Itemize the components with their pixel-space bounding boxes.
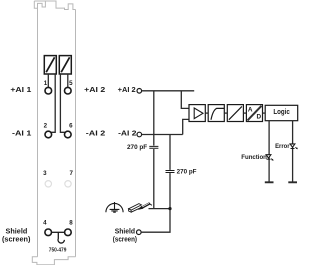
LED Error symbol (290, 144, 297, 149)
module right edge (75, 10, 77, 257)
filter curve (211, 108, 224, 119)
ground left (265, 181, 274, 183)
wire -AI 2 horizontal (142, 134, 183, 136)
wire +AI 2 branch down to C1 (153, 91, 155, 146)
svg-text:1: 1 (44, 80, 48, 87)
svg-text:+AI 2: +AI 2 (118, 85, 136, 94)
wire U1-U2 (205, 112, 208, 114)
wire U3-U4 (243, 112, 246, 114)
amplifier triangle (194, 108, 203, 119)
svg-text:7: 7 (69, 170, 73, 177)
wire shield bus horizontal (149, 208, 171, 210)
wire shield terminal to bus (141, 209, 170, 233)
shield clamp conductor arrow (141, 203, 150, 208)
LED square channel 1 (44, 56, 71, 74)
functional earth symbol (106, 202, 123, 212)
wire -AI 2 branch down to C2 (169, 135, 171, 170)
terminal circle -AI 2 (137, 132, 142, 137)
shield clamp plate bottom edge (131, 206, 144, 212)
shield clamp symbol plate (129, 204, 142, 213)
pin 7 clamp circle (unused) (65, 181, 71, 187)
amplifier block U1 (189, 105, 205, 122)
LED Function symbol (266, 155, 273, 160)
wire U4-U5 (263, 112, 266, 114)
svg-text:Error: Error (275, 143, 290, 150)
wire Logic to ground right (292, 121, 294, 182)
ground right (288, 181, 297, 183)
A/D converter block U4 (246, 105, 262, 122)
wire Logic to ground left (268, 121, 270, 182)
svg-text:6: 6 (69, 122, 73, 129)
svg-text:(screen): (screen) (113, 235, 138, 244)
wire bracket + input to amplifier (181, 91, 189, 109)
svg-text:(screen): (screen) (2, 235, 31, 244)
capacitor C2 270 pF plates (166, 171, 175, 173)
wire LED1 to pin 1 (47, 74, 49, 87)
wire bracket - input to amplifier (183, 119, 189, 134)
svg-text:-AI 2: -AI 2 (86, 129, 105, 138)
linearization block U3 (227, 105, 243, 122)
filter block U2 (208, 105, 224, 122)
jumper pin 4 to pin 8 (52, 231, 65, 233)
pin 8 clamp circle (65, 229, 72, 236)
svg-text:Logic: Logic (273, 107, 289, 116)
wire LED1 to pin 2 (51, 74, 56, 132)
terminal circle +AI 2 (137, 89, 142, 94)
LED square channel 2 (59, 56, 71, 74)
wire C2 down to shield bus (169, 173, 171, 209)
pin 5 clamp circle (65, 87, 72, 94)
svg-text:Function: Function (241, 154, 267, 161)
module 750-479 body outline top cap (34, 1, 75, 10)
LED diagonal channel 1 (46, 57, 54, 72)
module bottom foot (32, 257, 75, 265)
pin 3 clamp circle (unused) (45, 181, 51, 187)
wire LED2 to pin 6 (60, 74, 66, 132)
LED diagonal channel 2 (61, 57, 69, 72)
svg-text:-AI 2: -AI 2 (118, 129, 136, 138)
pin 6 clamp circle (65, 131, 72, 138)
svg-text:750-479: 750-479 (49, 248, 67, 254)
A/D diagonal (248, 106, 262, 121)
wire U2-U3 (224, 112, 227, 114)
svg-text:D: D (256, 114, 261, 121)
wire LED2 to pin 5 (67, 74, 69, 87)
terminal circle Shield (137, 230, 142, 235)
svg-text:2: 2 (44, 122, 48, 129)
svg-text:A: A (248, 106, 253, 113)
pin 2 clamp circle (45, 131, 52, 138)
Logic block U5 (265, 105, 298, 120)
linearization diagonal (229, 106, 242, 119)
svg-text:5: 5 (69, 80, 73, 87)
pin 1 clamp circle (45, 87, 52, 94)
svg-text:+AI 2: +AI 2 (84, 85, 105, 94)
svg-text:8: 8 (69, 220, 73, 227)
wire +AI 2 horizontal (142, 90, 195, 92)
svg-text:270 pF: 270 pF (127, 144, 147, 151)
svg-text:-AI 1: -AI 1 (12, 129, 31, 138)
svg-text:4: 4 (43, 220, 47, 227)
svg-text:+AI 1: +AI 1 (10, 85, 31, 94)
module left edge (37, 8, 39, 257)
svg-text:3: 3 (43, 170, 47, 177)
junction node shield bus (168, 207, 171, 210)
wire C1 down to shield bus (153, 149, 155, 209)
jumper hook (58, 232, 64, 243)
svg-text:270 pF: 270 pF (177, 169, 197, 176)
pin 4 clamp circle (45, 229, 52, 236)
capacitor C1 270 pF plates (149, 146, 158, 148)
